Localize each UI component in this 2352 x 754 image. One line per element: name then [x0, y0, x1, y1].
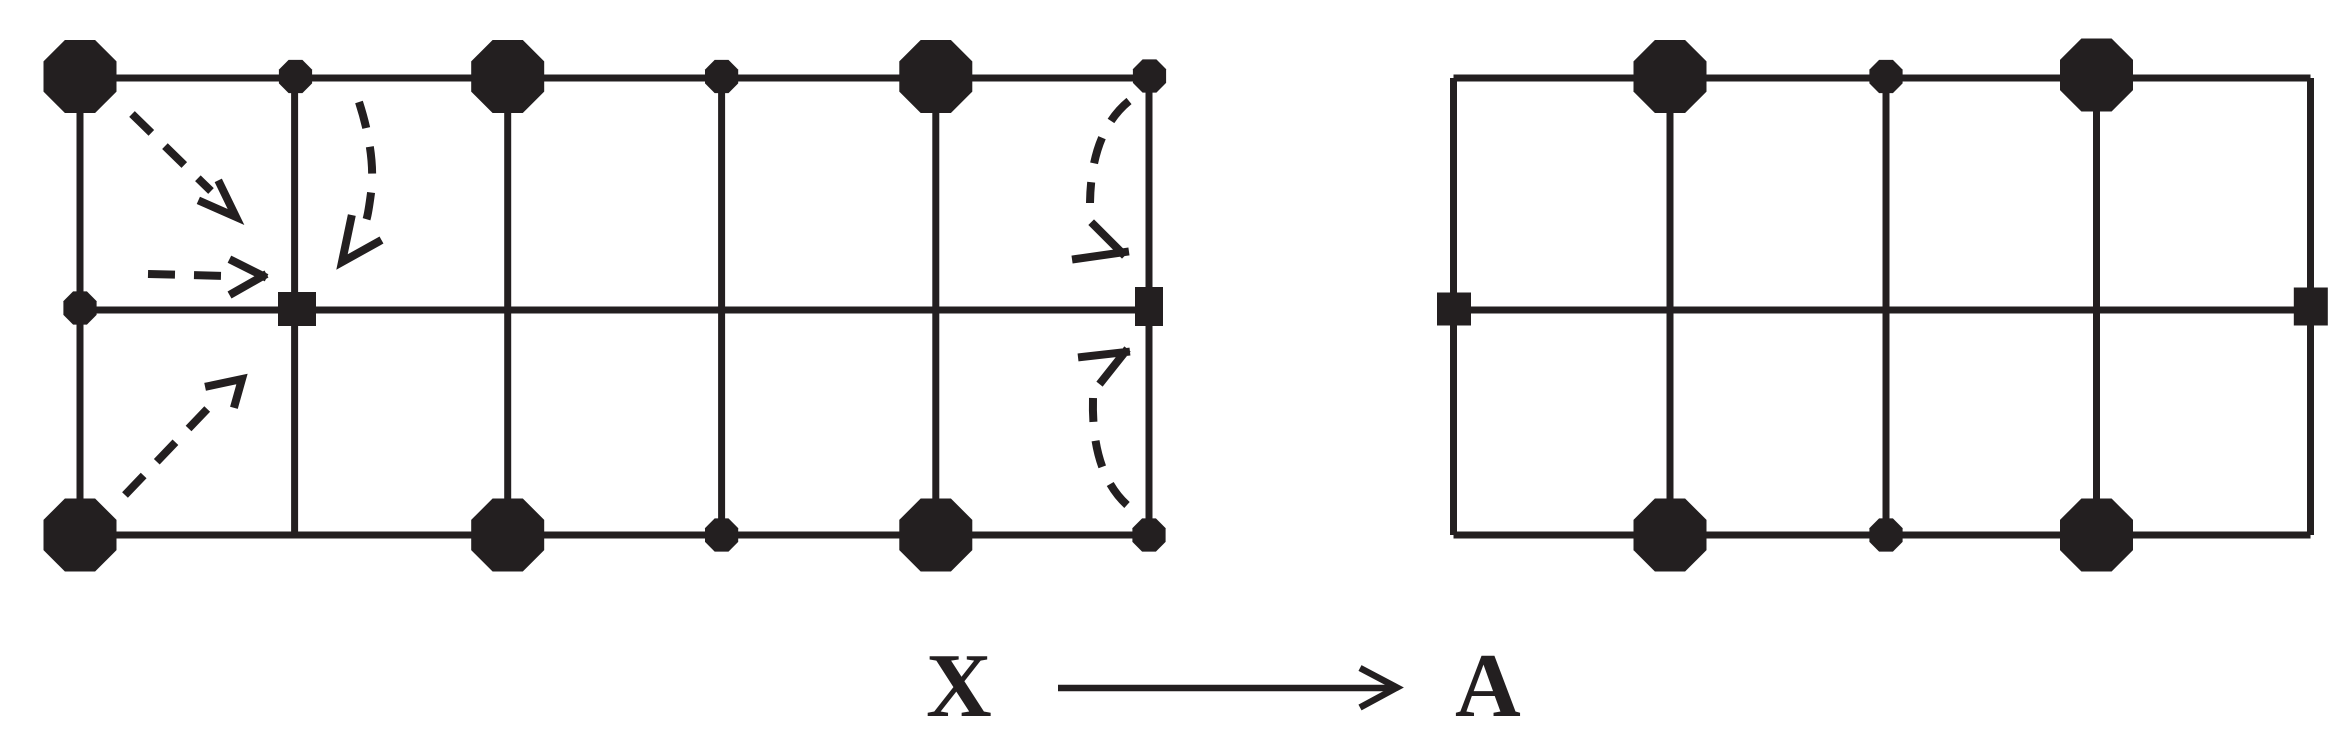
- svg-text:X: X: [926, 635, 992, 736]
- svg-text:A: A: [1455, 635, 1521, 736]
